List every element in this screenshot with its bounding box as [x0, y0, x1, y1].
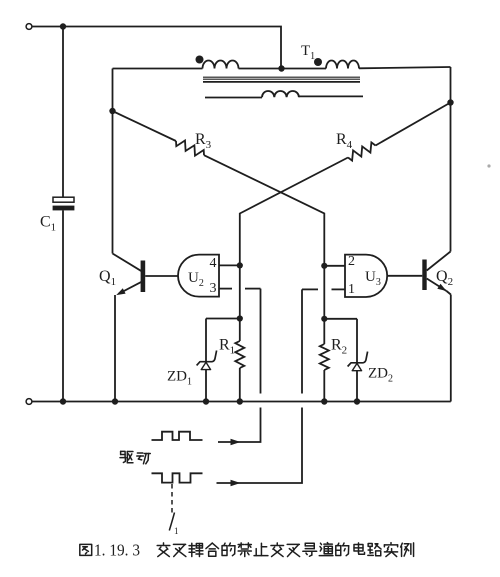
transistor Q1 emitter with arrow — [119, 282, 142, 294]
wire: R1 bottom to rail — [239, 368, 241, 402]
arrow: drive signal 1 into U2 pin3 net — [231, 439, 241, 445]
transistor Q2 emitter with arrow — [427, 279, 447, 292]
wire: Q1 emitter down to bottom rail — [114, 295, 116, 402]
node: rail junction R2 — [321, 398, 327, 404]
node: rail junction R1 — [237, 398, 243, 404]
wire: pin4 net junction to ZD1 top — [206, 318, 240, 320]
transformer T1 primary left winding — [203, 61, 239, 69]
capacitor C1 — [53, 197, 75, 210]
wire: diagonal from R4 crossing to left, bend down to U2 pin4 net — [240, 158, 348, 342]
wire: U2 pin 4 stub to vertical net — [219, 264, 240, 266]
transformer T1 primary middle segment — [239, 68, 327, 70]
zener diode ZD1 — [197, 351, 217, 366]
wire: Q2 base to U3 output — [388, 275, 423, 277]
wire: diagonal from left junction to R3 — [113, 111, 177, 141]
gate U2 body — [178, 255, 219, 297]
node: rail junction ZD2 — [354, 398, 360, 404]
dashed timing line t1 — [171, 484, 173, 515]
node: junction left vertical / R3 — [109, 108, 115, 114]
svg-text:4: 4 — [210, 256, 217, 271]
transformer T1 primary right segment — [359, 67, 451, 68]
wire: bottom rail — [32, 401, 451, 403]
node: rail junction Q1 emitter — [112, 398, 118, 404]
terminal: top input open circle — [26, 24, 32, 30]
wire: diagonal from right junction to R4 — [376, 103, 451, 146]
node: junction U2 pin4 tap — [237, 262, 243, 268]
wire: diagonal from R3 crossing to right, bend down to U3 pin2 net — [204, 155, 324, 344]
transistor Q2 collector — [427, 252, 451, 271]
caption: figure number — [80, 544, 92, 555]
node: junction R1/ZD1 top — [237, 315, 243, 321]
transformer T1 phasing dot left — [196, 56, 204, 64]
svg-text:1. 19. 3: 1. 19. 3 — [94, 541, 140, 560]
transformer T1 core lines — [203, 76, 360, 78]
wire: C1 to bottom rail — [62, 210, 64, 401]
arrow: drive signal 2 into U3 pin1 net — [231, 480, 241, 486]
waveform: drive signal 1 (positive pulses) — [152, 432, 203, 440]
wire: Q1 base to U2 output — [145, 275, 178, 277]
node: rail junction C1 — [60, 398, 66, 404]
node: junction R2/ZD2 top — [321, 316, 327, 322]
caption: figure title (Chinese) — [163, 543, 165, 545]
wire: R2 bottom to rail — [323, 370, 325, 402]
resistor R2 — [320, 344, 329, 370]
wire: pin2 net junction to ZD2 top — [324, 318, 357, 320]
node: T1 center tap junction — [278, 65, 284, 71]
wire: ZD1 top vertical — [205, 319, 207, 362]
transformer T1 secondary winding — [205, 97, 262, 99]
transformer T1 phasing dot right — [314, 58, 322, 66]
resistor R3 — [176, 141, 204, 156]
node: junction U3 pin2 tap — [321, 263, 327, 269]
node: junction right vertical / R4 — [447, 99, 453, 105]
zener diode ZD2 — [348, 352, 368, 367]
transformer T1 primary right winding — [326, 61, 359, 69]
node: junction top-left (C1 tap) — [60, 23, 66, 29]
wire: ZD2 bottom to rail — [356, 371, 358, 402]
wire: left vertical from transformer corner to Q1 collector bend — [112, 69, 114, 254]
label: drive (Chinese) — [121, 451, 125, 457]
transistor Q1 collector — [113, 254, 142, 272]
wire: left vertical from top rail to capacitor C1 — [62, 27, 64, 198]
wire: ZD1 bottom to rail — [205, 370, 207, 402]
wire: U2 pin 3 stub (hops over pin4 net) — [219, 288, 232, 290]
wire: ZD2 top vertical — [356, 319, 358, 363]
transformer T1 primary left segment — [113, 68, 203, 70]
resistor R4 — [348, 142, 376, 160]
wire: right vertical from transformer to Q2 collector bend — [450, 67, 452, 252]
waveform: drive signal 2 (negative pulses) — [152, 473, 203, 482]
transistor Q2 base bar — [422, 260, 426, 291]
speck artifact right edge — [487, 164, 490, 167]
wire: Q2 emitter down to bottom rail corner — [450, 295, 452, 402]
svg-text:1: 1 — [174, 526, 179, 536]
label t1 — [169, 513, 174, 531]
wire: U3 pin 2 stub to vertical net — [324, 265, 345, 267]
resistor R1 — [235, 341, 244, 368]
node: rail junction ZD1 — [203, 398, 209, 404]
wire: U3 pin 1 stub (hops over pin2 net) — [332, 288, 346, 290]
transistor Q1 base bar — [141, 261, 146, 293]
svg-text:2: 2 — [348, 254, 355, 269]
svg-text:3: 3 — [210, 281, 217, 296]
wire: U2 pin 3 net down to drive line (hop at bottom rail) — [260, 289, 262, 394]
wire: U3 pin 1 net down to drive line (hop at bottom rail) — [301, 289, 303, 393]
svg-text:1: 1 — [348, 282, 355, 297]
gate U3 body — [345, 255, 387, 297]
terminal: bottom open circle — [26, 399, 32, 405]
wire: top rail from terminal to corner, down to transformer center tap — [32, 27, 281, 69]
